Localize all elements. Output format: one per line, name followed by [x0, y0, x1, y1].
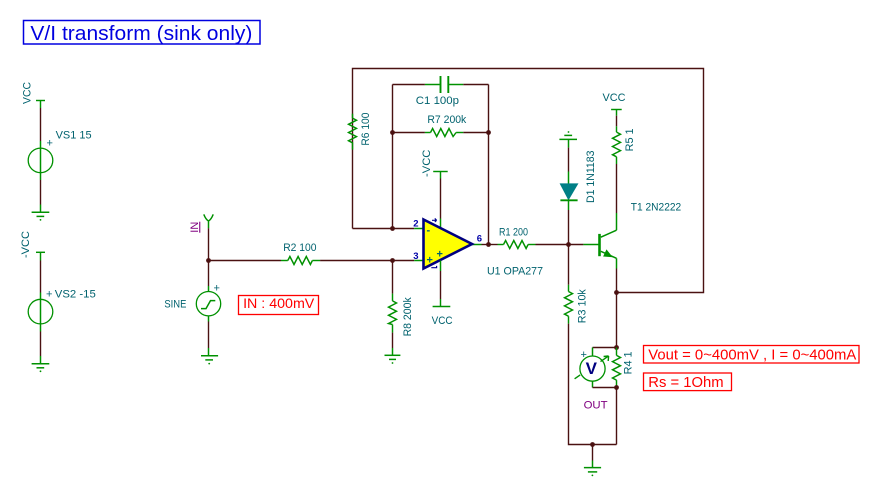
svg-text:+: + — [427, 255, 433, 267]
wire collector — [616, 164, 618, 213]
svg-text:+: + — [47, 138, 53, 150]
wire C1/R7 left vertical — [392, 85, 394, 229]
wire — [320, 260, 392, 262]
wire -VCC to op-amp — [440, 179, 442, 219]
terminal IN — [189, 214, 213, 232]
wire output row — [482, 244, 498, 246]
wire — [392, 333, 394, 348]
wire — [616, 293, 618, 348]
power tap -VCC (VS2) — [20, 231, 45, 261]
wire — [208, 228, 210, 260]
resistor R8 — [389, 261, 415, 337]
ground (VS2) — [32, 356, 50, 372]
svg-text:R7 200k: R7 200k — [427, 114, 466, 126]
capacitor C1 — [416, 76, 464, 107]
voltage source VS2 — [28, 288, 96, 331]
node junction emitter — [614, 290, 619, 295]
resistor R5 — [613, 126, 637, 164]
resistor R1 — [498, 227, 536, 249]
wire down — [616, 388, 618, 445]
wire emitter down — [616, 269, 618, 293]
wire pin3 stub — [393, 260, 415, 262]
svg-text:R6 100: R6 100 — [360, 113, 372, 146]
node junction R4 top — [614, 345, 619, 350]
svg-text:6: 6 — [477, 234, 482, 245]
svg-text:V: V — [586, 359, 598, 378]
wire — [536, 244, 584, 246]
power tap VCC (VS1) — [21, 82, 45, 108]
node junction — [206, 258, 211, 263]
wire right vertical to output — [488, 85, 490, 245]
node junction R7 right — [486, 130, 491, 135]
wire — [616, 116, 618, 127]
ground (VS1) — [32, 205, 50, 221]
node junction output pin6 — [486, 242, 491, 247]
source SINE — [164, 283, 220, 322]
node junction pin2 — [390, 226, 395, 231]
svg-text:IN : 400mV: IN : 400mV — [243, 295, 315, 311]
wire — [208, 322, 210, 349]
title block — [24, 21, 261, 46]
node junction R7 left — [390, 130, 395, 135]
node junction pin3 — [390, 258, 395, 263]
wire meter top — [593, 347, 617, 349]
svg-text:VS2 -15: VS2 -15 — [55, 288, 96, 300]
svg-text:R4 1: R4 1 — [623, 351, 635, 374]
svg-text:VS1 15: VS1 15 — [56, 129, 92, 141]
svg-text:+: + — [46, 288, 52, 300]
svg-text:R3 10k: R3 10k — [576, 289, 588, 323]
svg-text:R2 100: R2 100 — [283, 242, 316, 254]
svg-text:IN: IN — [189, 222, 201, 233]
node junction R4 bottom — [614, 385, 619, 390]
svg-text:+: + — [214, 283, 220, 295]
wire — [40, 108, 42, 141]
node junction D1/R3 — [566, 242, 571, 247]
svg-text:+: + — [581, 349, 587, 361]
ground (SINE) — [201, 348, 218, 365]
wire top rail — [353, 69, 704, 293]
power tap VCC (R5) — [603, 92, 626, 116]
voltage source VS1 — [28, 129, 91, 180]
annotation Vout — [644, 346, 860, 364]
wire R3 down to bottom row — [569, 324, 617, 445]
diode D1 — [560, 151, 596, 211]
wire — [208, 261, 210, 287]
svg-text:VCC: VCC — [21, 82, 33, 104]
voltmeter OUT — [575, 348, 609, 412]
svg-text:3: 3 — [413, 251, 418, 262]
svg-text:V/I transform (sink only): V/I transform (sink only) — [30, 23, 252, 45]
resistor R6 — [349, 113, 373, 150]
wire pin2 row — [353, 228, 415, 230]
svg-text:VCC: VCC — [432, 315, 453, 327]
svg-text:R8 200k: R8 200k — [402, 297, 414, 337]
svg-text:C1 100p: C1 100p — [416, 95, 459, 107]
resistor R2 — [281, 242, 320, 265]
node junction bottom — [590, 442, 595, 447]
wire — [568, 245, 570, 285]
svg-text:R1 200: R1 200 — [499, 227, 528, 239]
transistor T1 — [583, 201, 681, 268]
wire C1 row — [393, 84, 425, 86]
wire — [463, 84, 488, 86]
svg-text:-: - — [427, 225, 431, 237]
op-amp U1 leads — [414, 228, 423, 230]
resistor R7 — [425, 114, 467, 137]
svg-text:2: 2 — [413, 219, 418, 230]
ground (bottom) — [584, 461, 601, 477]
svg-text:U1 OPA277: U1 OPA277 — [487, 266, 543, 278]
ground (R8) — [385, 348, 401, 364]
svg-text:R5 1: R5 1 — [624, 128, 636, 151]
wire meter bottom — [593, 387, 617, 389]
svg-text:-VCC: -VCC — [20, 231, 32, 258]
wire — [40, 332, 42, 357]
wire op-amp to VCC tap — [440, 261, 442, 272]
svg-text:SINE: SINE — [164, 299, 186, 311]
power tap VCC (op-amp) — [432, 299, 453, 327]
svg-text:T1 2N2222: T1 2N2222 — [631, 201, 681, 213]
svg-text:OUT: OUT — [584, 400, 608, 412]
wire ground stem — [592, 445, 594, 461]
wire R7 row left — [393, 132, 425, 134]
op-amp U1 body — [413, 218, 543, 277]
annotation Rs — [644, 373, 732, 391]
wire — [568, 148, 570, 172]
wire — [568, 210, 570, 245]
svg-text:-VCC: -VCC — [421, 150, 433, 177]
resistor R3 — [565, 285, 589, 324]
annotation IN : 400mV — [239, 295, 319, 315]
svg-text:VCC: VCC — [603, 92, 626, 104]
power tap -VCC (op-amp) — [421, 150, 448, 179]
svg-text:Rs = 1Ohm: Rs = 1Ohm — [648, 374, 723, 391]
ground flipped (D1 top) — [559, 131, 577, 148]
wire — [209, 260, 282, 262]
svg-text:+: + — [437, 249, 443, 261]
wire — [40, 180, 42, 205]
wire — [40, 261, 42, 293]
resistor R4 — [613, 348, 635, 388]
svg-text:Vout = 0~400mV , I = 0~400mA: Vout = 0~400mV , I = 0~400mA — [648, 347, 856, 364]
wire R7 row right — [463, 132, 488, 134]
svg-text:D1 1N1183: D1 1N1183 — [585, 151, 597, 204]
